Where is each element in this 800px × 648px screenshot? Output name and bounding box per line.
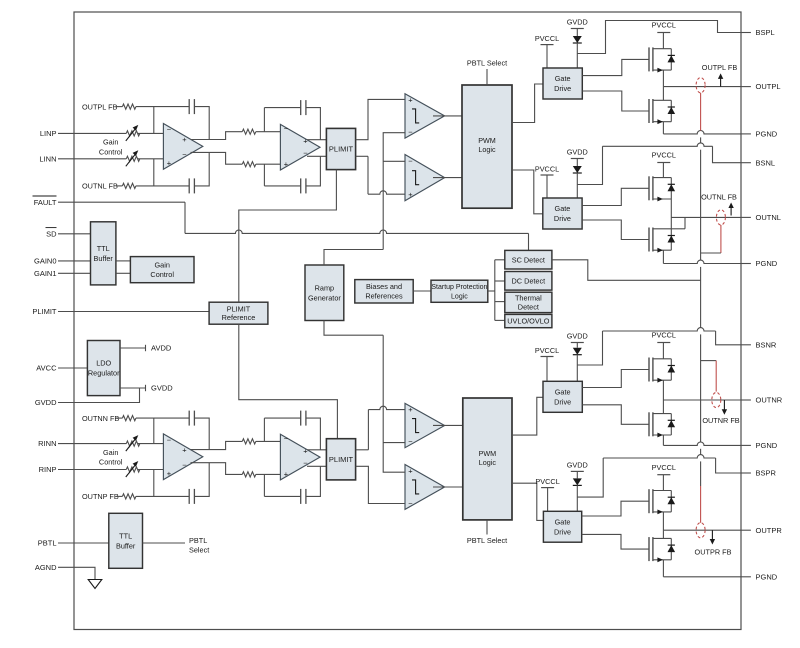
svg-text:Drive: Drive [554,214,571,223]
svg-text:−: − [408,128,413,137]
wire Q5 source to OUTNR [662,380,664,400]
block gate drive 4 [543,511,581,542]
wire SD pin [58,233,91,235]
block PWM Logic lower [463,398,512,520]
comparator C2 [405,155,445,201]
svg-text:PGND: PGND [756,441,778,450]
svg-text:OUTNL FB: OUTNL FB [82,182,118,191]
svg-text:References: References [365,292,403,301]
svg-text:PBTL: PBTL [38,539,57,548]
wire OUTPR node [663,529,741,531]
wire PWM to gate drive 2 [512,170,543,214]
svg-text:Thermal: Thermal [515,294,542,303]
svg-text:OUTNN FB: OUTNN FB [82,414,119,423]
wire red sense OUTNL [720,225,722,253]
svg-text:+: + [303,137,308,146]
wire OUTNL node [671,216,741,218]
chip outline border [74,12,741,630]
wire C3 out to PWM2 [433,424,463,426]
wire OUTNR node [663,399,741,401]
node junction A2 minus [263,108,265,132]
svg-text:LINP: LINP [40,129,57,138]
wire gate drive 3 low out [582,405,649,425]
svg-text:Buffer: Buffer [94,254,114,263]
wire A4 out bottom to PLIMIT2 [307,465,326,467]
wire res to A4 minus [256,440,281,442]
capacitor integrator A2 top [300,100,302,115]
svg-text:LINN: LINN [39,154,56,163]
capacitor integrator A4 bottom [300,489,302,504]
svg-text:PGND: PGND [756,130,778,139]
svg-text:Control: Control [99,458,123,467]
svg-text:OUTNR: OUTNR [756,396,783,405]
svg-text:AVCC: AVCC [36,364,57,373]
resistor OUTNP FB [122,494,135,499]
power label GVDD 1 [571,28,584,30]
svg-text:BSNR: BSNR [756,340,777,349]
svg-text:+: + [167,469,172,478]
svg-text:+: + [408,405,413,414]
wire vertical sense bus [700,137,702,143]
svg-text:PBTL: PBTL [189,536,207,545]
wire Q8 source to PGND [662,560,664,577]
transistor Q6 low-side OUTNR [648,412,650,436]
variable resistor gain RINN [126,441,140,446]
svg-text:+: + [303,446,308,455]
wire PWM2 to gate drive 3 [512,397,543,435]
svg-text:−: − [182,460,187,469]
wire AVDD out [120,347,146,349]
wire LINN to A1 [138,158,164,160]
wire PBTL pin [58,542,109,544]
svg-text:+: + [408,466,413,475]
power label PVCCL gate drive 1 [541,44,554,46]
block Thermal Detect [505,292,552,312]
wire Q2 drain to OUTPL [662,87,664,101]
wire A4 bottom cap to out [306,466,321,496]
wire LINP pin [58,132,126,134]
wire PLIMIT2 out- to comparator C4 [356,466,405,503]
svg-text:PLIMIT: PLIMIT [329,455,354,464]
wire PLIMIT out- to comparator C2 [356,155,368,157]
svg-text:Drive: Drive [554,84,571,93]
op-amp A4 second integrator [280,434,320,480]
power label PVCCL gate drive 2 [541,174,554,176]
svg-text:BSPL: BSPL [756,28,775,37]
wire cap to A3 out bottom [194,463,209,497]
diode GVDD 3 [573,348,582,355]
wire Q1 drain [662,33,664,49]
wire PWM to gate drive 1 [512,84,543,123]
svg-text:PLIMIT: PLIMIT [329,145,354,154]
wire Q4 drain jog [671,228,685,230]
wire startup to detect bus [488,290,495,292]
wire RINN to A3 [138,443,164,445]
svg-text:GVDD: GVDD [35,398,57,407]
svg-text:PWM: PWM [478,136,496,145]
svg-text:Ramp: Ramp [315,283,334,292]
wire GAIN1 pin [58,272,91,274]
svg-text:Generator: Generator [308,293,341,302]
wire PLIMIT out+ to comparator C1 [356,99,405,139]
wire Q6 source to PGND [662,435,664,445]
svg-text:BSNL: BSNL [756,158,776,167]
svg-text:OUTPL: OUTPL [756,82,781,91]
transistor Q4 low-side OUTNL [648,228,650,252]
svg-text:PVCCL: PVCCL [535,477,559,486]
svg-text:PVCCL: PVCCL [652,463,676,472]
svg-text:−: − [408,437,413,446]
current sense ellipse OUTNL [716,210,725,225]
svg-text:Detect: Detect [518,302,539,311]
svg-text:TTL: TTL [119,532,132,541]
svg-text:+: + [182,135,187,144]
svg-text:GVDD: GVDD [567,461,588,470]
svg-text:Biases and: Biases and [366,282,402,291]
wire gate drive 1 high out [582,59,649,75]
variable resistor gain LINN [126,156,140,161]
current sense ellipse OUTNR [712,392,721,407]
wire OUTPL node [663,86,741,88]
svg-text:OUTPR: OUTPR [756,526,783,535]
wire gate drive 2 low out [582,220,649,240]
wire Q8 drain to OUTPR [662,530,664,538]
svg-text:−: − [408,499,413,508]
capacitor integrator A1 top [188,99,190,114]
svg-text:−: − [408,156,413,165]
svg-text:PVCCL: PVCCL [535,346,559,355]
svg-text:PVCCL: PVCCL [652,331,676,340]
resistor OUTNL FB [122,183,135,188]
diode GVDD 1 [573,36,582,43]
block SC Detect [505,250,552,269]
svg-text:+: + [408,96,413,105]
svg-text:GVDD: GVDD [567,148,588,157]
wire Q4 source to PGND [662,250,664,263]
transistor Q5 high-side OUTNR [648,358,650,382]
transistor Q8 low-side OUTPR [648,537,650,561]
block gate drive 1 [543,68,582,99]
feedback arrow OUTPL FB [720,77,722,86]
svg-text:Drive: Drive [554,397,571,406]
wire A1 out bottom [191,152,243,164]
node junction FB/RINP [153,470,155,497]
svg-text:OUTNL FB: OUTNL FB [701,193,737,202]
wire ramp to comparators lower [383,335,405,472]
node junction FB/LINN [153,159,155,186]
wire GAIN0 pin [58,260,91,262]
wire cap to A1 out bottom [194,152,209,186]
power label GVDD 3 [571,342,584,344]
wire A2 out bottom to PLIMIT [307,155,326,157]
wire RINP pin [58,469,126,471]
wire bootstrap BSPR [577,458,603,497]
wire TTL buffer to gain control 1 [116,260,130,262]
block gate drive 3 [543,381,582,412]
wire OUTNN FB to cap [136,417,189,419]
block PLIMIT Reference [209,302,268,324]
wire to A4 bottom cap [264,495,300,497]
wire C2 out to PWM [433,177,462,179]
block UVLO OVLO [505,314,552,327]
wire PGND 1 [663,130,741,133]
power label PVCCL half-bridge 2 [657,162,670,164]
block Gain Control [130,257,194,283]
svg-text:SC Detect: SC Detect [512,255,545,264]
power label PVCCL gate drive 3 [541,356,554,358]
diode GVDD 2 [573,166,582,173]
wire FAULT net [184,202,186,233]
power label PVCCL half-bridge 4 [657,474,670,476]
wire gate drive 2 high out [582,188,649,205]
block TTL Buffer lower [109,513,143,568]
resistor mid top lower [242,439,256,444]
svg-text:−: − [284,434,289,443]
current sense ellipse OUTPL [696,78,705,93]
power label GVDD 4 [571,470,584,472]
svg-text:GAIN0: GAIN0 [34,257,57,266]
svg-text:OUTNR FB: OUTNR FB [702,416,739,425]
wire A3 out bottom [191,463,243,475]
comparator C4 [405,465,445,510]
wire to A4 top cap [264,417,300,419]
wire C1 out to PWM [433,115,462,117]
svg-text:−: − [284,124,289,133]
block Startup Protection Logic [431,280,488,302]
wire res to A4 plus [256,473,281,475]
resistor mid bottom lower [242,472,256,477]
wire LINP to A1 [138,132,164,134]
svg-text:Gate: Gate [555,74,571,83]
svg-text:+: + [284,470,289,479]
wire gate drive 4 low out [582,534,649,549]
svg-text:Gate: Gate [555,517,571,526]
svg-text:Control: Control [150,270,174,279]
resistor mid bottom [242,162,256,167]
wire Q2 source to PGND [662,122,664,134]
svg-text:−: − [167,435,172,444]
svg-text:OUTNP FB: OUTNP FB [82,492,119,501]
power label PVCCL half-bridge 1 [657,32,670,34]
node junction FB/RINN [153,418,155,444]
svg-text:Logic: Logic [451,294,468,301]
svg-text:AGND: AGND [35,563,57,572]
op-amp A2 second integrator [280,124,320,170]
wire A1 out top [191,132,243,140]
wire GVDD out [120,387,146,389]
svg-text:Gate: Gate [555,204,571,213]
svg-text:PVCCL: PVCCL [535,34,559,43]
wire PGND 4 [663,576,741,578]
wire PLIMIT pin [58,311,209,313]
wire bootstrap BSPL [577,21,741,54]
power label PVCCL gate drive 4 [541,487,554,489]
power label GVDD 2 [571,158,584,160]
wire red sense OUTPL [700,93,702,131]
wire OUTNL FB to cap [136,185,189,187]
block Biases and References [355,280,413,303]
svg-text:OUTPR FB: OUTPR FB [695,548,732,557]
svg-text:OUTPL FB: OUTPL FB [82,102,118,111]
wire A4 out top to PLIMIT2 [307,449,326,451]
svg-text:Gain: Gain [103,138,118,147]
capacitor integrator A1 bottom [188,178,190,193]
wire bootstrap BSNR [577,331,602,365]
wire Q1 source to OUTPL [662,70,664,87]
svg-text:PGND: PGND [756,572,778,581]
block TTL Buffer upper [91,222,116,285]
svg-text:PVCCL: PVCCL [535,164,559,173]
wire PBTL select out [143,542,186,544]
transistor Q7 high-side OUTPR [648,489,650,513]
svg-text:Buffer: Buffer [116,541,136,550]
wire bootstrap BSNL [577,146,602,184]
node junction FB/LINP [153,107,155,134]
wire cap to A3 out [194,418,209,450]
resistor mid top [242,129,256,134]
diode GVDD 4 [573,478,582,485]
wire A2 top cap to out [306,108,321,140]
block PLIMIT lower [326,439,355,480]
current sense ellipse OUTPR [696,523,705,538]
svg-text:Gain: Gain [103,448,118,457]
svg-text:+: + [182,445,187,454]
node junction A4 plus [263,474,265,496]
wire reference to PLIMIT2 [239,324,338,439]
wire gate drive 4 high out [582,501,649,516]
wire TTL buffer to gain control 2 [116,272,130,274]
ground symbol AGND [88,580,102,589]
svg-text:GVDD: GVDD [567,332,588,341]
resistor OUTPL FB [122,104,135,109]
svg-text:−: − [167,125,172,134]
svg-text:OUTPL FB: OUTPL FB [702,63,738,72]
svg-text:GVDD: GVDD [567,18,588,27]
svg-text:Gain: Gain [154,261,169,270]
wire RINN pin [58,443,126,445]
wire PWM2 to gate drive 4 [512,483,543,520]
wire A3 out top [191,441,243,449]
svg-text:LDO: LDO [96,359,111,368]
svg-text:+: + [408,190,413,199]
wire GVDD3 to gate drive [576,343,578,348]
wire PLIMIT2 out+ to comparator C3 [356,449,369,451]
svg-text:PGND: PGND [756,259,778,268]
wire ramp generator top [324,250,383,266]
svg-text:Reference: Reference [222,313,256,322]
svg-text:AVDD: AVDD [151,344,172,353]
wire ramp to comparators upper [383,133,405,250]
wire Q7 drain [662,475,664,491]
wire GVDD2 to gate drive [576,159,578,167]
svg-text:Logic: Logic [479,458,497,467]
wire AVCC pin [58,367,87,369]
wire GVDD4 to gate drive [576,471,578,478]
wire to A2 bottom cap [264,185,300,187]
wire red sense OUTNR [701,360,717,362]
transistor Q3 high-side OUTNL [648,176,650,200]
svg-text:Control: Control [99,147,123,156]
svg-text:Startup Protection: Startup Protection [431,284,487,291]
svg-text:GVDD: GVDD [151,384,173,393]
capacitor integrator A2 bottom [300,178,302,193]
svg-text:Regulator: Regulator [88,369,120,378]
node junction A2 plus [263,164,265,186]
wire Q5 drain [662,343,664,359]
wire OUTPL FB to cap [136,106,189,108]
svg-text:−: − [182,150,187,159]
op-amp A1 input amplifier [163,124,202,170]
capacitor integrator A3 top [188,411,190,426]
wire Q3 source to OUTNL [670,199,672,229]
svg-text:Drive: Drive [554,527,571,536]
svg-text:TTL: TTL [97,244,110,253]
wire biases to startup [413,290,431,292]
wire gate drive 3 high out [582,370,649,388]
wire res to A2 minus [256,131,281,133]
wire cap to A1 out [194,107,209,140]
feedback arrow OUTNL FB [730,207,732,216]
block LDO Regulator [87,341,120,396]
svg-text:FAULT: FAULT [34,198,57,207]
comparator C1 [405,94,445,138]
svg-text:+: + [167,159,172,168]
wire GVDD pin [58,388,140,403]
feedback arrow OUTNR FB [723,400,725,411]
wire LINN pin [58,158,126,160]
wire A4 top cap to out [306,418,321,450]
svg-text:RINP: RINP [39,465,57,474]
wire red sense OUTPR [700,486,702,523]
wire RINP to A3 [138,469,164,471]
svg-text:Gate: Gate [555,388,571,397]
power label PVCCL half-bridge 3 [657,342,670,344]
wire AGND pin [58,567,95,579]
transistor Q2 low-side OUTPL [648,99,650,123]
transistor Q1 high-side OUTPL [648,47,650,71]
svg-text:PVCCL: PVCCL [652,151,676,160]
wire PGND 2 [663,260,741,263]
svg-text:PLIMIT: PLIMIT [227,304,251,313]
svg-text:PLIMIT: PLIMIT [32,307,57,316]
wire A2 bottom cap to out [306,156,321,186]
variable resistor gain RINP [126,467,140,472]
wire Q6 drain to OUTNR [662,400,664,414]
wire detect bus [494,260,496,321]
node junction A4 minus [263,418,265,441]
wire PGND 3 [663,442,741,445]
wire gate drive 1 low out [582,91,649,111]
block PLIMIT upper [326,128,355,169]
svg-text:PWM: PWM [479,449,497,458]
svg-text:RINN: RINN [38,439,56,448]
block DC Detect [505,272,552,291]
block Ramp Generator [305,265,344,321]
wire to A2 top cap [264,107,300,109]
svg-text:UVLO/OVLO: UVLO/OVLO [507,317,549,326]
svg-text:Logic: Logic [478,145,496,154]
wire OUTNP FB to cap [136,495,189,497]
svg-text:PVCCL: PVCCL [652,21,676,30]
svg-text:SD: SD [46,229,57,238]
comparator C3 [405,403,445,447]
wire ramp generator bottom [324,321,383,336]
svg-text:DC Detect: DC Detect [512,276,546,285]
resistor OUTNN FB [122,416,135,421]
svg-text:GAIN1: GAIN1 [34,269,57,278]
block gate drive 2 [543,198,582,229]
svg-text:PBTL Select: PBTL Select [467,59,507,68]
